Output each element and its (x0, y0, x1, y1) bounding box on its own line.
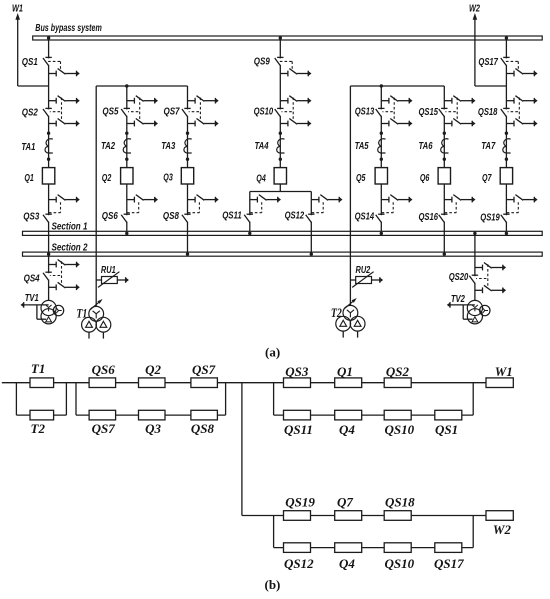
svg-text:Q4: Q4 (339, 422, 355, 437)
svg-text:QS12: QS12 (285, 211, 305, 222)
svg-text:TA5: TA5 (355, 141, 369, 152)
svg-text:QS3: QS3 (23, 211, 39, 222)
svg-text:QS4: QS4 (24, 273, 40, 284)
svg-text:QS17: QS17 (478, 57, 498, 68)
svg-text:QS10: QS10 (385, 556, 415, 571)
svg-text:QS11: QS11 (284, 422, 313, 437)
svg-text:QS1: QS1 (22, 57, 38, 68)
svg-text:Q4: Q4 (256, 174, 266, 185)
svg-text:QS2: QS2 (386, 364, 410, 379)
svg-text:QS15: QS15 (419, 107, 439, 118)
svg-text:QS20: QS20 (449, 272, 469, 283)
svg-text:RU1: RU1 (101, 265, 116, 276)
svg-text:W1: W1 (12, 4, 23, 15)
svg-text:TA1: TA1 (21, 142, 35, 153)
svg-text:Q2: Q2 (102, 173, 112, 184)
svg-text:QS10: QS10 (385, 422, 415, 437)
svg-text:TA3: TA3 (161, 141, 175, 152)
svg-text:TV2: TV2 (451, 294, 465, 305)
svg-text:TV1: TV1 (25, 293, 39, 304)
svg-text:QS19: QS19 (285, 495, 315, 510)
svg-text:Q7: Q7 (337, 495, 353, 510)
svg-text:QS8: QS8 (191, 421, 215, 436)
svg-text:RU2: RU2 (356, 265, 371, 276)
svg-text:Q3: Q3 (163, 173, 173, 184)
svg-text:Q3: Q3 (145, 421, 161, 436)
svg-text:Bus bypass system: Bus bypass system (35, 23, 102, 34)
svg-text:QS6: QS6 (102, 211, 118, 222)
svg-text:QS7: QS7 (164, 107, 181, 118)
svg-text:W2: W2 (469, 4, 480, 15)
svg-text:TA2: TA2 (101, 141, 115, 152)
svg-text:Q1: Q1 (337, 364, 353, 379)
svg-text:Q4: Q4 (339, 556, 355, 571)
svg-text:Q5: Q5 (356, 173, 366, 184)
svg-text:T1: T1 (31, 361, 45, 376)
svg-text:Q6: Q6 (420, 173, 430, 184)
svg-text:QS1: QS1 (435, 422, 458, 437)
svg-text:QS10: QS10 (254, 106, 274, 117)
svg-text:QS18: QS18 (385, 495, 415, 510)
svg-text:QS17: QS17 (434, 556, 464, 571)
svg-text:QS18: QS18 (478, 107, 498, 118)
svg-text:W1: W1 (495, 364, 513, 379)
svg-text:T2: T2 (31, 421, 46, 436)
svg-text:QS12: QS12 (284, 556, 314, 571)
svg-text:TA6: TA6 (419, 141, 433, 152)
svg-text:QS13: QS13 (355, 107, 375, 118)
svg-text:TA4: TA4 (255, 141, 269, 152)
svg-text:Q7: Q7 (482, 173, 492, 184)
svg-text:Q2: Q2 (145, 362, 161, 377)
svg-text:QS11: QS11 (222, 211, 242, 222)
svg-text:Section 1: Section 1 (52, 221, 88, 232)
svg-text:T1: T1 (76, 305, 87, 320)
svg-text:QS7: QS7 (92, 421, 116, 436)
svg-text:QS8: QS8 (163, 211, 179, 222)
svg-text:QS2: QS2 (22, 107, 38, 118)
svg-text:Section 2: Section 2 (52, 242, 88, 253)
svg-text:(b): (b) (265, 577, 281, 592)
svg-text:Q1: Q1 (24, 173, 34, 184)
svg-text:QS3: QS3 (285, 364, 309, 379)
svg-text:QS14: QS14 (355, 212, 375, 223)
svg-text:W2: W2 (493, 522, 512, 537)
svg-text:QS5: QS5 (102, 107, 118, 118)
svg-text:QS9: QS9 (254, 56, 270, 67)
svg-text:QS7: QS7 (192, 362, 216, 377)
svg-text:QS6: QS6 (92, 362, 116, 377)
svg-text:TA7: TA7 (481, 141, 496, 152)
svg-text:(a): (a) (265, 345, 280, 360)
svg-text:QS19: QS19 (480, 213, 500, 224)
svg-text:QS16: QS16 (419, 212, 439, 223)
svg-text:T2: T2 (331, 305, 342, 320)
